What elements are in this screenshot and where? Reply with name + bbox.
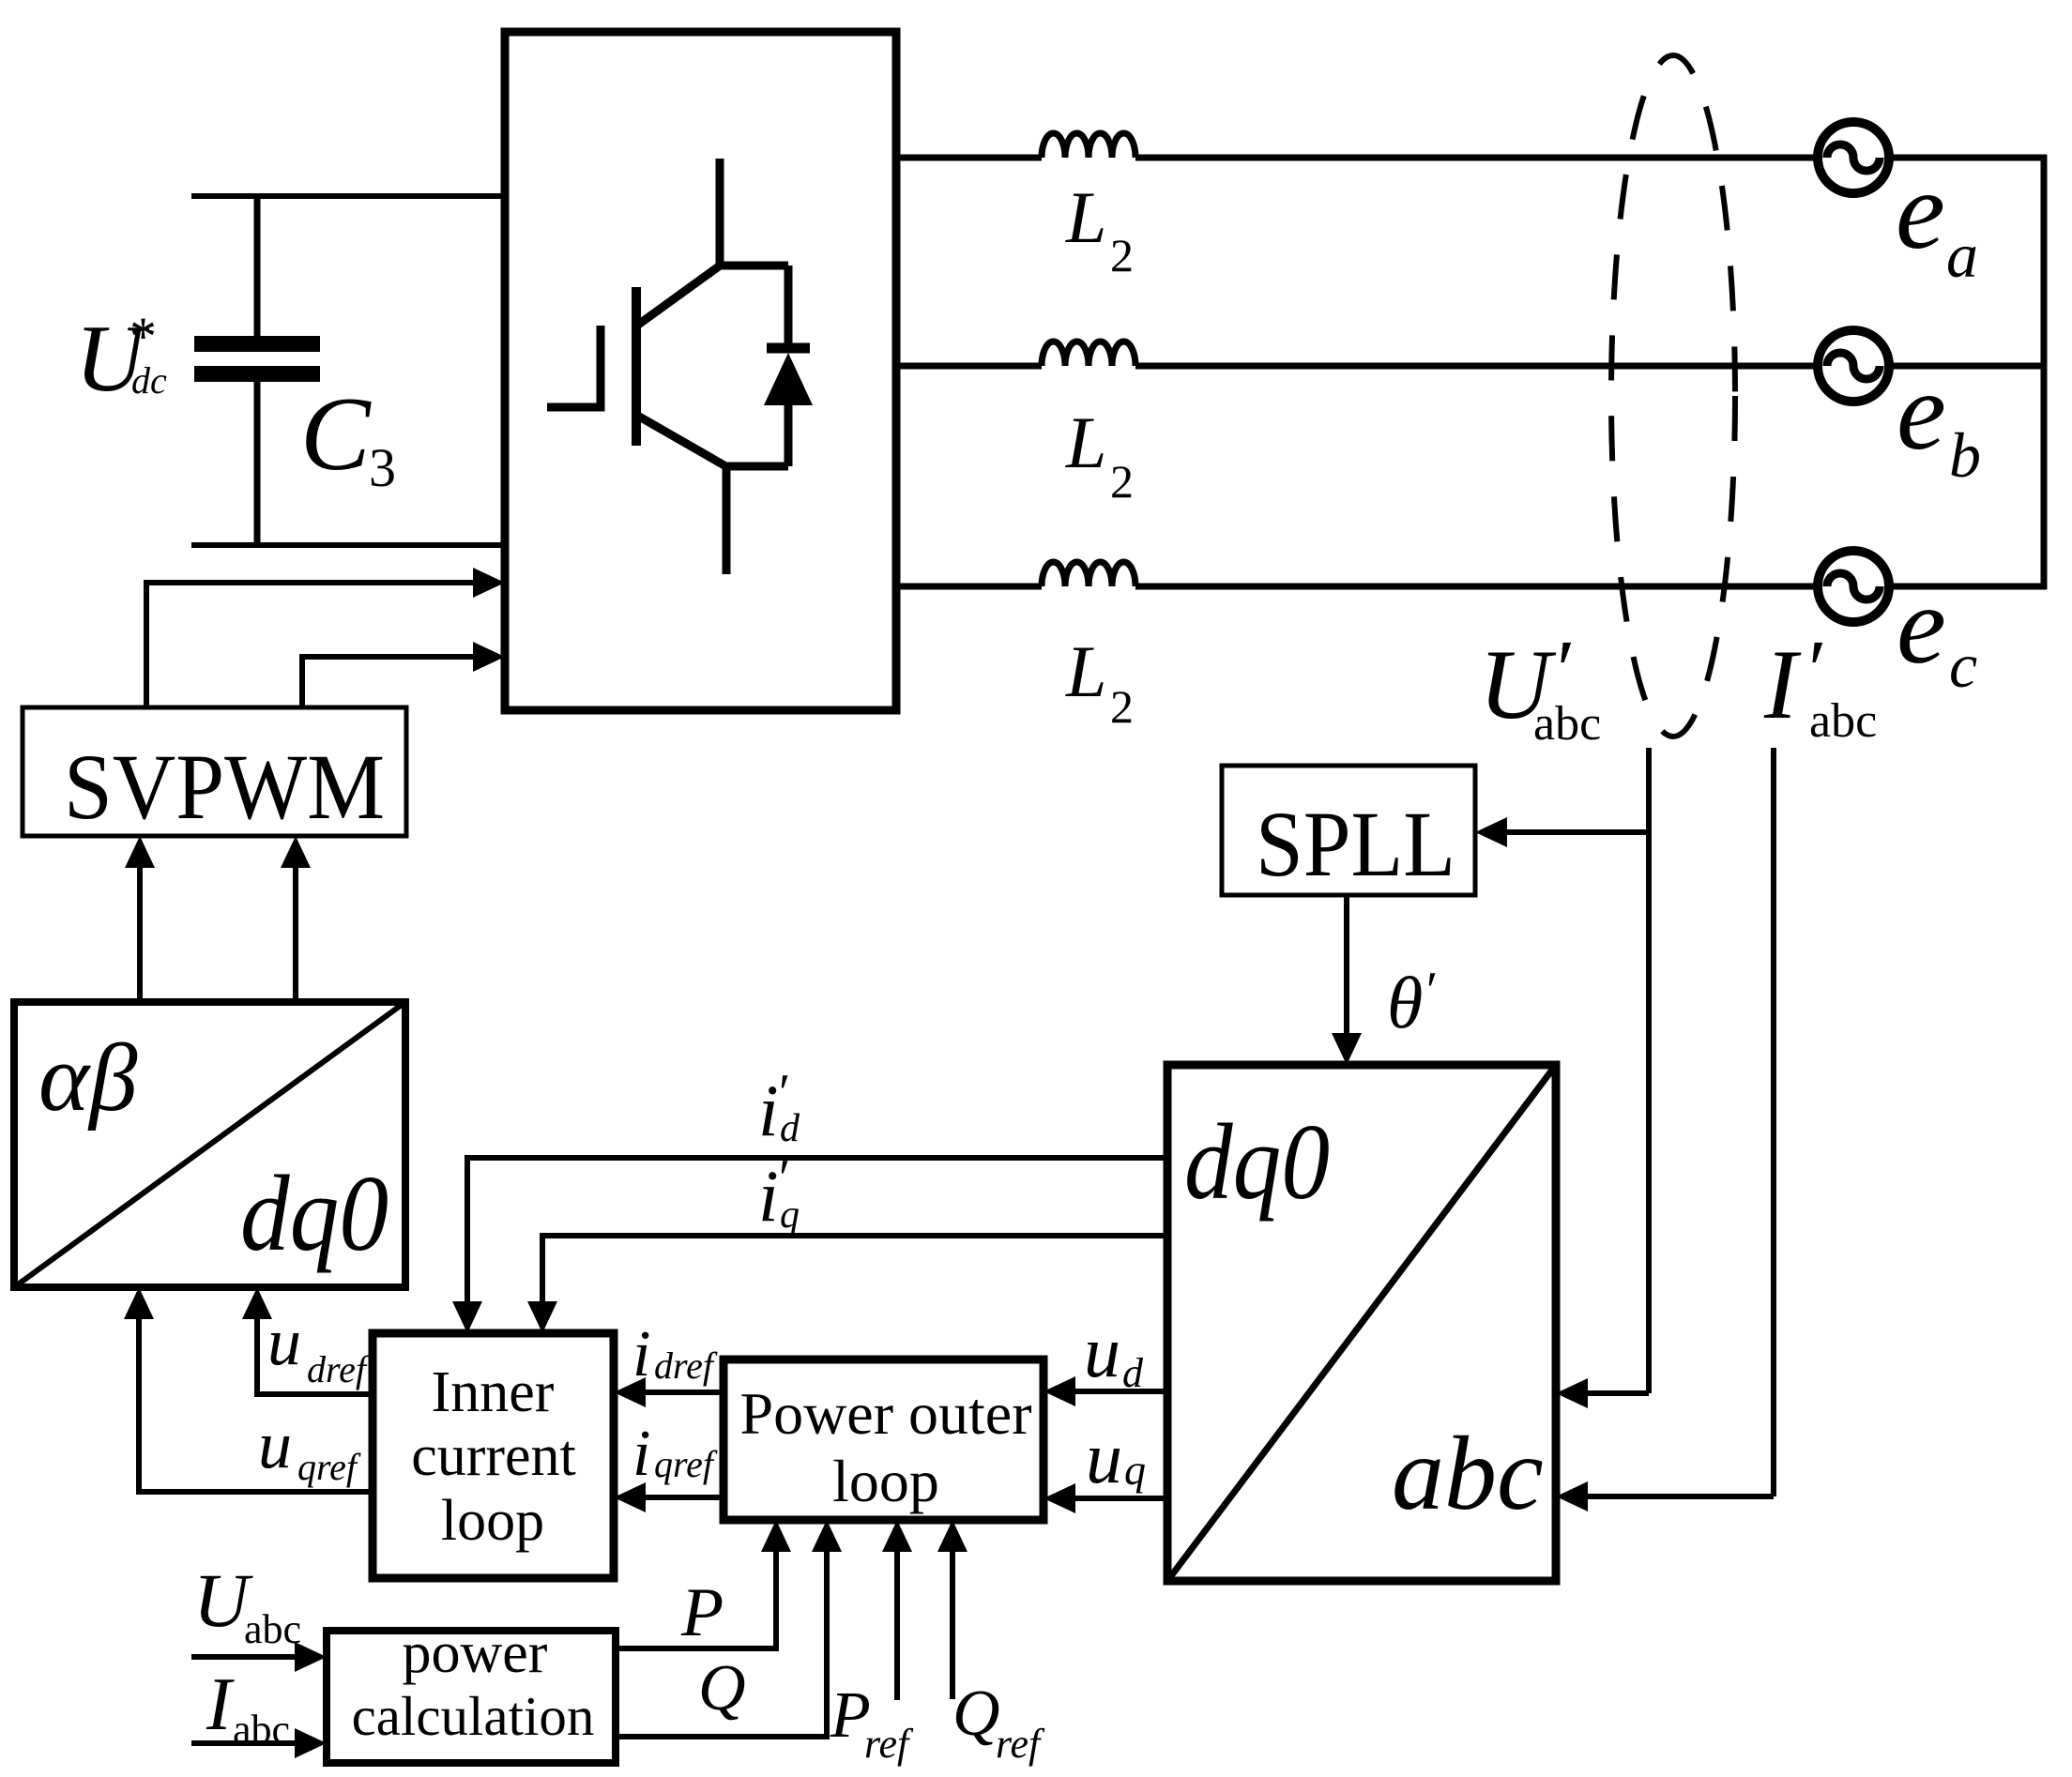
svg-text:*: * [129, 306, 157, 367]
svg-text:qref: qref [297, 1446, 361, 1488]
svg-text:loop: loop [441, 1489, 544, 1553]
svg-text:a: a [1946, 220, 1978, 291]
svg-text:L: L [1065, 630, 1106, 712]
svg-text:d: d [1122, 1350, 1144, 1396]
svg-text:′: ′ [1426, 962, 1438, 1020]
svg-text:Inner: Inner [432, 1360, 555, 1424]
svg-text:i: i [632, 1418, 650, 1490]
svg-text:2: 2 [1110, 680, 1134, 733]
svg-text:dq0: dq0 [240, 1154, 388, 1274]
svg-text:q: q [780, 1193, 800, 1237]
svg-text:abc: abc [233, 1707, 290, 1753]
svg-text:q: q [1124, 1446, 1146, 1494]
svg-text:αβ: αβ [38, 1025, 138, 1132]
svg-text:I: I [1763, 630, 1802, 739]
svg-text:SPLL: SPLL [1256, 792, 1455, 896]
svg-text:L: L [1065, 402, 1106, 483]
svg-text:i: i [632, 1318, 650, 1390]
svg-text:3: 3 [369, 437, 396, 498]
svg-text:ref: ref [864, 1721, 914, 1767]
svg-text:C: C [300, 376, 372, 493]
svg-text:2: 2 [1110, 455, 1134, 508]
svg-text:u: u [1084, 1311, 1120, 1392]
svg-text:abc: abc [1392, 1416, 1544, 1532]
svg-text:power: power [403, 1621, 548, 1685]
svg-text:e: e [1897, 563, 1946, 687]
svg-text:c: c [1949, 630, 1977, 701]
svg-text:I: I [206, 1663, 235, 1746]
svg-text:e: e [1896, 148, 1945, 272]
svg-text:L: L [1065, 176, 1106, 258]
svg-text:d: d [780, 1107, 800, 1150]
svg-text:Q: Q [952, 1678, 1000, 1750]
svg-text:b: b [1949, 419, 1981, 491]
svg-text:dq0: dq0 [1184, 1102, 1330, 1223]
svg-text:2: 2 [1110, 229, 1134, 281]
svg-text:abc: abc [1533, 697, 1601, 751]
svg-text:abc: abc [244, 1606, 301, 1652]
svg-text:P: P [680, 1574, 724, 1651]
svg-text:current: current [411, 1424, 576, 1488]
svg-text:Q: Q [698, 1652, 746, 1724]
svg-text:u: u [267, 1304, 301, 1379]
svg-text:dref: dref [654, 1344, 718, 1387]
svg-text:e: e [1897, 349, 1946, 473]
svg-text:i: i [758, 1155, 779, 1237]
svg-text:SVPWM: SVPWM [64, 735, 385, 839]
svg-text:loop: loop [832, 1448, 939, 1514]
svg-text:i: i [758, 1070, 779, 1151]
svg-text:ref: ref [996, 1721, 1045, 1767]
svg-text:u: u [258, 1407, 292, 1482]
svg-text:qref: qref [654, 1443, 718, 1485]
svg-text:dref: dref [307, 1348, 371, 1390]
svg-text:abc: abc [1809, 694, 1877, 748]
svg-text:calculation: calculation [352, 1685, 595, 1747]
svg-text:Power outer: Power outer [739, 1380, 1031, 1447]
svg-text:θ: θ [1387, 962, 1423, 1043]
svg-text:dc: dc [131, 359, 167, 402]
svg-text:u: u [1086, 1417, 1122, 1498]
